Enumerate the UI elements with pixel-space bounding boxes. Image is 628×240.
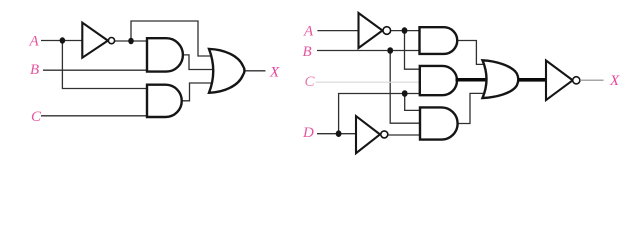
AND gate G5 (right middle) <box>420 66 457 95</box>
node junction dot on A wire <box>60 37 66 43</box>
wire OR2 output emphasized thick to NOT4 <box>518 78 547 82</box>
wire input B (right circuit) <box>317 50 421 52</box>
node junction dot on D wire <box>336 130 342 137</box>
svg-text:B: B <box>30 62 39 78</box>
wire input A (left circuit) <box>41 40 83 42</box>
wire D branch up to AND5 <box>339 94 421 134</box>
svg-text:D: D <box>302 125 314 141</box>
svg-text:X: X <box>269 65 280 81</box>
inverter U3 (NOT on D, right circuit) <box>356 116 388 153</box>
node junction dot at D branch crossing <box>402 90 408 97</box>
AND gate G1 (left top) <box>147 38 183 71</box>
AND gate G2 (left bottom) <box>147 85 182 117</box>
svg-text:A: A <box>303 24 314 40</box>
wire NOT2 output to AND4 <box>390 30 421 32</box>
wire AND5 output emphasized thick to OR2 <box>456 78 490 82</box>
wire A' bypass to OR1 top input <box>131 21 212 56</box>
wire NOT4 output to X <box>580 79 604 81</box>
svg-text:A: A <box>29 34 40 50</box>
inverter U4 (NOT output, right circuit) <box>546 61 580 101</box>
wire input D (right circuit) <box>317 133 356 135</box>
node junction dot on B wire <box>387 47 393 54</box>
AND gate G4 (right top) <box>420 27 458 54</box>
AND gate G6 (right bottom, 3-input) <box>420 107 458 139</box>
inverter U2 (NOT on A, right circuit) <box>359 13 391 48</box>
wire OR1 output to X <box>244 70 266 72</box>
wire input C (right circuit, faint) <box>316 81 421 83</box>
wire AND6 output to OR2 bottom input <box>458 93 486 123</box>
wire D branch down to AND6 top input <box>405 94 421 111</box>
OR gate G3 (left) <box>209 49 245 93</box>
wire B branch down to AND6 <box>390 51 421 124</box>
node junction dot after NOT2 <box>402 27 408 34</box>
wire AND2 output to OR1 bottom input <box>182 83 214 101</box>
svg-text:B: B <box>303 44 312 60</box>
wire AND4 output to OR2 top input <box>457 41 490 65</box>
svg-text:C: C <box>31 109 42 125</box>
wire AND1 output to OR1 middle input <box>183 55 214 70</box>
wire A branch down to AND2 <box>62 41 148 89</box>
wire A' branch down to AND5 <box>405 31 422 70</box>
wire input B (left circuit) <box>43 69 148 71</box>
svg-text:C: C <box>305 74 316 90</box>
wire input A (right circuit) <box>317 30 358 32</box>
svg-text:X: X <box>609 73 620 89</box>
wire inverter NOT1 output to AND1 <box>115 40 148 42</box>
wire input C (left circuit) <box>41 115 148 117</box>
wire NOT3 output to AND6 <box>388 134 421 136</box>
OR gate G7 (right) <box>483 60 519 98</box>
inverter U1 (NOT on A, left circuit) <box>82 23 114 58</box>
node junction dot after NOT1 <box>128 38 134 44</box>
